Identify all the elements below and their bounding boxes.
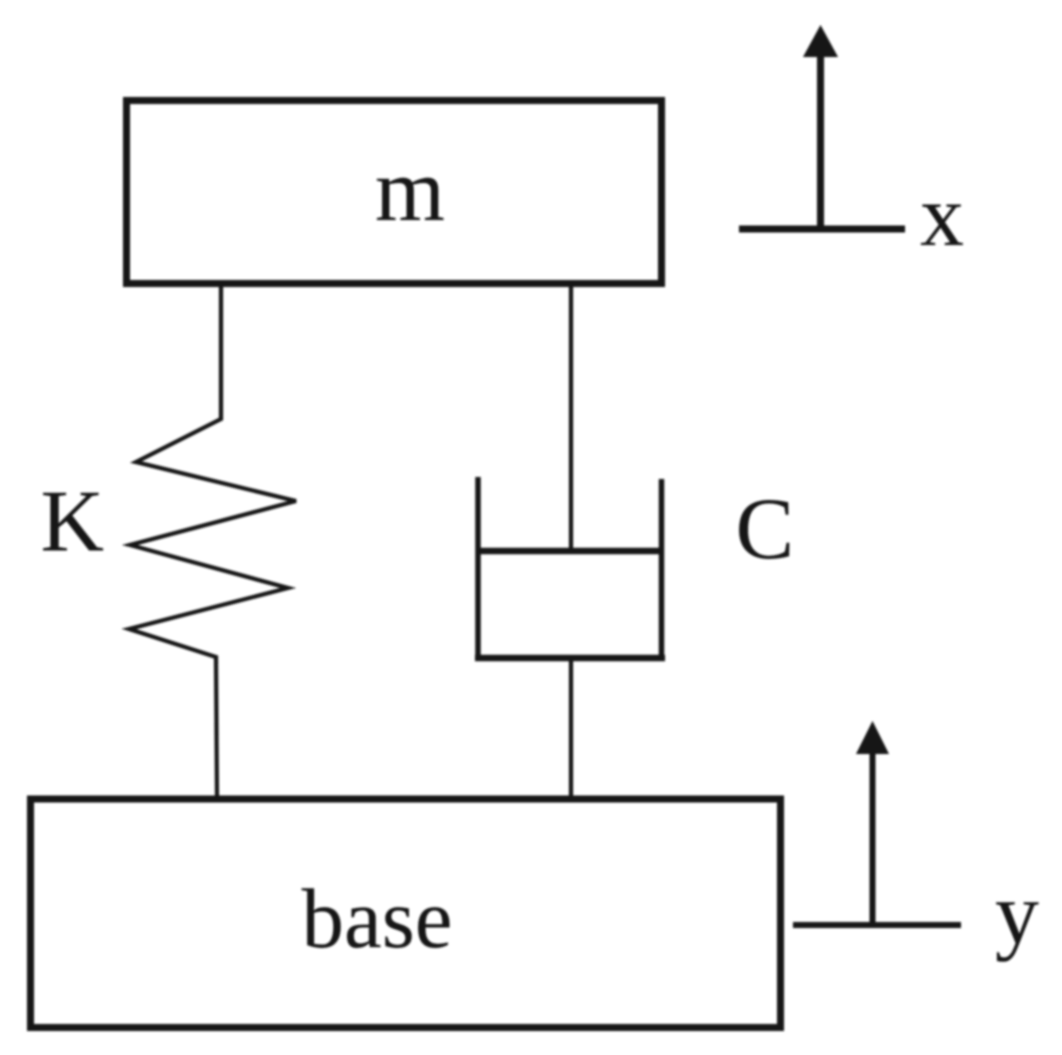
svg-text:base: base xyxy=(301,872,452,966)
svg-text:C: C xyxy=(736,481,795,578)
svg-text:y: y xyxy=(995,866,1039,963)
svg-text:K: K xyxy=(41,474,105,571)
svg-text:m: m xyxy=(375,141,445,240)
svg-text:x: x xyxy=(920,168,964,265)
